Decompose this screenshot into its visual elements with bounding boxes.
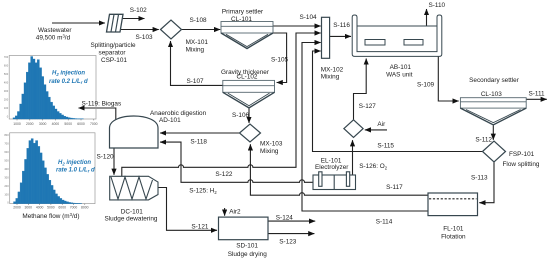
wire Air into air mixer (365, 129, 387, 131)
dryer SD-101 (219, 217, 269, 240)
svg-text:MX-102: MX-102 (321, 66, 344, 73)
wire S-112 settler underflow to FSP (492, 126, 494, 140)
svg-text:600: 600 (4, 150, 9, 154)
svg-text:2000: 2000 (13, 205, 21, 209)
svg-text:S-122: S-122 (215, 171, 232, 178)
settler CL-103 (460, 98, 526, 125)
svg-text:Primary settler: Primary settler (222, 8, 264, 15)
svg-text:WAS unit: WAS unit (386, 71, 413, 78)
svg-text:700: 700 (4, 142, 9, 146)
svg-text:600: 600 (4, 64, 9, 68)
svg-text:5000: 5000 (64, 122, 72, 126)
svg-text:Air2: Air2 (229, 209, 241, 216)
svg-text:2000: 2000 (26, 122, 34, 126)
svg-text:5000: 5000 (47, 205, 55, 209)
wire S-125 H2 / S-118 electrolyzer to digester (160, 142, 313, 182)
svg-text:S-103: S-103 (136, 34, 153, 41)
svg-text:S-102: S-102 (130, 7, 147, 14)
svg-text:S-104: S-104 (300, 14, 317, 21)
mixer MX-102 (322, 17, 330, 58)
svg-text:SD-101: SD-101 (236, 243, 258, 250)
wire S-126 O2 electrolyzer to air mixer (352, 140, 354, 175)
svg-text:7000: 7000 (70, 205, 78, 209)
wire S-127 oxygen-enriched air to aeration tank (354, 59, 367, 120)
svg-text:100: 100 (4, 106, 9, 110)
svg-text:CL-101: CL-101 (231, 16, 252, 23)
svg-text:S-105: S-105 (271, 57, 288, 64)
svg-text:8000: 8000 (81, 205, 89, 209)
wire MX-103 outlet to AD-101 (160, 132, 240, 134)
svg-text:500: 500 (4, 72, 9, 76)
svg-text:Flow splitting: Flow splitting (503, 161, 540, 168)
svg-text:4000: 4000 (36, 205, 44, 209)
svg-text:Secondary settler: Secondary settler (469, 77, 520, 84)
svg-text:Splitting/particle: Splitting/particle (90, 42, 136, 49)
wire S-114 flotation underflow to MX-102 (302, 43, 428, 212)
svg-text:7000: 7000 (90, 122, 98, 126)
svg-text:6000: 6000 (58, 205, 66, 209)
svg-text:Electrolyzer: Electrolyzer (315, 164, 349, 171)
svg-text:CL-102: CL-102 (237, 74, 258, 81)
chart histogram 1 (biogas, 0.2 L/Lr d) (4, 55, 98, 126)
svg-text:500: 500 (4, 159, 9, 163)
svg-text:CSP-101: CSP-101 (101, 57, 127, 64)
wire S-119 biogas arrow (79, 108, 116, 122)
settler CL-101 (221, 22, 273, 49)
svg-text:Wastewater: Wastewater (38, 27, 72, 34)
svg-text:700: 700 (4, 55, 9, 59)
svg-text:S-113: S-113 (471, 175, 488, 182)
svg-text:S-108: S-108 (190, 17, 207, 24)
mixer MX-103 (240, 124, 261, 142)
dewatering DC-101 screw press (110, 176, 158, 200)
wire S-105 settler underflow to thickener (273, 33, 287, 83)
svg-text:H2 injection: H2 injection (58, 160, 91, 166)
svg-text:300: 300 (4, 89, 9, 93)
wire S-107 thickener overflow to MX-101 (171, 41, 223, 85)
svg-text:Sludge drying: Sludge drying (228, 251, 268, 258)
separator CSP-101 (107, 14, 124, 32)
splitter FSP-101 (483, 141, 506, 162)
svg-text:S-111: S-111 (529, 90, 546, 97)
svg-text:Sludge dewatering: Sludge dewatering (105, 216, 158, 223)
svg-text:Air: Air (377, 121, 386, 128)
wire S-102 (123, 18, 145, 20)
svg-text:S-127: S-127 (359, 103, 376, 110)
chart histogram 2 (methane, 1.0 L/Lr d) (4, 133, 95, 220)
aeration tank AB-101 (352, 15, 442, 56)
svg-text:S-123: S-123 (279, 239, 296, 246)
svg-text:S-126: O2: S-126: O2 (359, 163, 388, 170)
svg-text:400: 400 (4, 81, 9, 85)
svg-text:Flotation: Flotation (441, 234, 466, 241)
svg-text:S-124: S-124 (276, 214, 293, 221)
svg-text:200: 200 (4, 184, 9, 188)
wire S-117 flotation sludge to MX-103 (250, 144, 428, 195)
svg-text:4000: 4000 (52, 122, 60, 126)
svg-text:rate 0.2 L/Lr d: rate 0.2 L/Lr d (49, 79, 88, 85)
svg-text:S-109: S-109 (417, 82, 434, 89)
wire Air2 into dryer (224, 208, 226, 216)
svg-text:800: 800 (4, 133, 9, 137)
svg-text:S-112: S-112 (475, 137, 492, 144)
svg-text:AD-101: AD-101 (159, 117, 181, 124)
wire S-111 effluent (526, 98, 547, 100)
svg-text:Mixing: Mixing (321, 74, 340, 81)
wire S-103 (120, 29, 159, 31)
mixer air/O2 (344, 120, 363, 138)
mixer MX-101 (161, 20, 182, 39)
svg-text:MX-101: MX-101 (186, 39, 209, 46)
svg-text:MX-103: MX-103 (260, 140, 283, 147)
svg-text:3000: 3000 (39, 122, 47, 126)
svg-text:200: 200 (4, 98, 9, 102)
svg-text:separator: separator (99, 49, 127, 56)
wire S-115 FSP recycle to MX-102 (313, 51, 483, 152)
wire S-104 (273, 25, 321, 27)
svg-text:rate 1.0 L/Lr d: rate 1.0 L/Lr d (56, 167, 95, 173)
svg-text:S-110: S-110 (429, 2, 446, 9)
svg-text:400: 400 (4, 167, 9, 171)
svg-text:6000: 6000 (77, 122, 85, 126)
wire S-116 MX-102 to aeration tank (330, 35, 351, 37)
svg-text:Mixing: Mixing (186, 47, 205, 54)
wire S-120 digester to dewatering (113, 148, 115, 175)
svg-text:S-114: S-114 (376, 219, 393, 226)
svg-text:S-121: S-121 (191, 224, 208, 231)
wire S-124 (268, 220, 315, 222)
wire S-108 (182, 29, 221, 31)
svg-text:FL-101: FL-101 (443, 225, 464, 232)
svg-text:S-107: S-107 (187, 78, 204, 85)
svg-text:FSP-101: FSP-101 (509, 151, 535, 158)
svg-text:1000: 1000 (13, 122, 21, 126)
svg-text:Mixing: Mixing (260, 148, 279, 155)
svg-text:S-117: S-117 (386, 184, 403, 191)
wire S-109 to secondary settler (438, 56, 458, 101)
svg-text:AB-101: AB-101 (390, 64, 412, 71)
digester AD-101 (110, 116, 159, 148)
svg-text:3000: 3000 (25, 205, 33, 209)
svg-text:100: 100 (4, 193, 9, 197)
svg-text:300: 300 (4, 176, 9, 180)
svg-text:CL-103: CL-103 (481, 91, 502, 98)
wire S-122 dewatering filtrate to MX-102 (122, 33, 321, 176)
svg-text:S-125: H2: S-125: H2 (189, 187, 217, 194)
wire S-110 offgas (426, 9, 428, 26)
wire S-121 dewatered sludge to dryer (158, 188, 217, 231)
wire S-113 FSP to flotation (479, 162, 494, 203)
svg-text:S-115: S-115 (377, 142, 394, 149)
wire wastewater feed S-101 (52, 22, 105, 24)
wire S-123 (268, 233, 314, 235)
svg-text:S-120: S-120 (97, 154, 114, 161)
flotation FL-101 (428, 193, 478, 216)
svg-text:S-118: S-118 (190, 139, 207, 146)
wire S-106 thickener underflow to MX-103 (248, 108, 250, 123)
electrolyzer EL-101 (313, 172, 356, 190)
svg-text:H2 injection: H2 injection (52, 71, 85, 77)
svg-text:S-106: S-106 (232, 112, 249, 119)
thickener CL-102 (223, 80, 275, 108)
svg-text:49,500 m3/d: 49,500 m3/d (36, 34, 71, 42)
svg-text:S-116: S-116 (333, 22, 350, 29)
svg-text:S-119: Biogas: S-119: Biogas (82, 100, 122, 107)
